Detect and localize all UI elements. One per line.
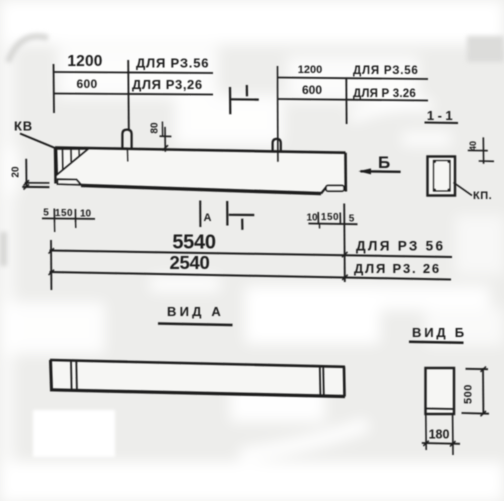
svg-text:КВ: КВ [14,119,33,134]
svg-text:5: 5 [43,208,49,219]
svg-text:А: А [204,212,212,224]
svg-text:ВИД А: ВИД А [167,304,224,319]
svg-text:600: 600 [302,83,322,97]
svg-text:ВИД Б: ВИД Б [412,325,467,340]
svg-text:5: 5 [349,214,355,225]
svg-text:500: 500 [463,384,475,404]
svg-text:2540: 2540 [170,252,210,273]
svg-text:80: 80 [150,122,161,134]
svg-text:20: 20 [11,166,22,178]
svg-text:150: 150 [321,212,339,223]
svg-text:180: 180 [429,428,450,442]
svg-text:ДЛЯ РЗ.56: ДЛЯ РЗ.56 [353,65,419,77]
svg-text:1-1: 1-1 [427,108,456,123]
svg-text:ДЛЯ РЗ 56: ДЛЯ РЗ 56 [356,239,445,254]
svg-text:ДЛЯ Р3,26: ДЛЯ Р3,26 [132,77,203,92]
svg-text:150: 150 [55,208,73,219]
svg-text:1200: 1200 [298,64,322,76]
svg-text:10: 10 [306,213,318,224]
svg-text:ДЛЯ РЗ.56: ДЛЯ РЗ.56 [136,56,209,71]
svg-text:600: 600 [77,77,98,91]
svg-text:Б: Б [378,153,390,172]
svg-text:5540: 5540 [172,232,215,254]
svg-text:10: 10 [80,209,92,220]
svg-text:1200: 1200 [67,53,102,70]
svg-text:40: 40 [468,141,478,151]
svg-text:КП.: КП. [473,190,492,202]
svg-text:ДЛЯ Р3. 26: ДЛЯ Р3. 26 [354,261,441,276]
svg-text:ДЛЯ Р 3.26: ДЛЯ Р 3.26 [353,88,416,100]
